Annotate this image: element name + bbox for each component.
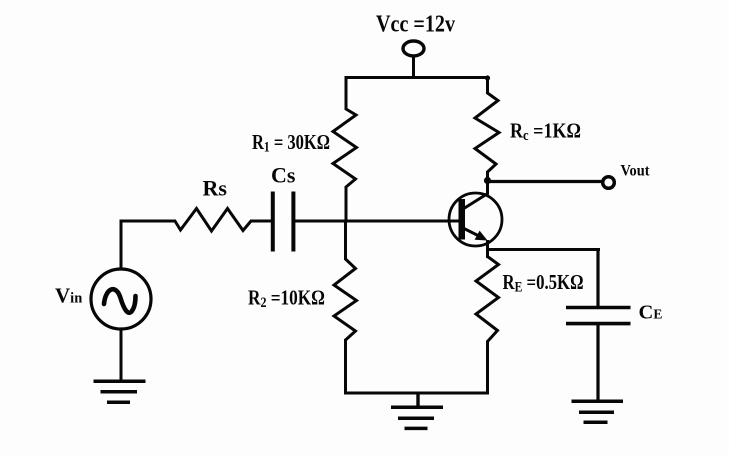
wire base (Cs to transistor through node): [294, 220, 460, 223]
wire R1 bottom: [345, 186, 348, 222]
svg-text:R2 =10KΩ: R2 =10KΩ: [248, 286, 325, 312]
node collector junction: [484, 177, 491, 184]
transistor Q1 emitter arrowhead: [475, 231, 488, 241]
wire Vcc stem: [412, 56, 415, 78]
svg-text:R1 = 30KΩ: R1 = 30KΩ: [252, 130, 330, 156]
wire Rs to Cs: [250, 220, 272, 223]
wire CE top: [596, 248, 599, 308]
transistor Q1 emitter stroke: [463, 228, 482, 238]
ground CE: [572, 401, 624, 422]
capacitor CE: [566, 308, 631, 324]
transistor Q1 base bar: [459, 199, 466, 240]
wire collector up to node: [486, 180, 489, 194]
terminal Vout: [603, 177, 615, 189]
wire emitter node to CE branch: [486, 248, 600, 251]
resistor RE: [476, 257, 499, 342]
terminal Vcc: [403, 41, 424, 56]
source Vin sine wave: [104, 289, 136, 313]
wire Vin top: [121, 221, 176, 270]
wire top rail: [346, 76, 488, 79]
wire CE bottom: [596, 324, 599, 402]
resistor R2: [334, 259, 357, 340]
wire R2 top: [344, 220, 347, 260]
resistor Rc: [475, 93, 499, 172]
wire bottom rail: [344, 392, 489, 395]
transistor Q1 collector stroke: [463, 193, 489, 209]
transistor Q1 circle: [449, 193, 502, 246]
svg-text:Rc =1KΩ: Rc =1KΩ: [510, 119, 581, 145]
wire emitter down: [486, 240, 489, 258]
wire RE bottom: [486, 341, 489, 395]
ground Vin: [94, 381, 146, 402]
wire R1 top: [345, 76, 348, 110]
wire center ground stem: [416, 393, 419, 408]
resistor R1: [333, 109, 357, 187]
resistor Rs: [175, 209, 251, 232]
svg-text:Vcc =12v: Vcc =12v: [376, 12, 455, 38]
node top-right corner: [485, 75, 490, 80]
wire Vin bottom: [120, 328, 123, 382]
wire Rc bottom to collector node: [486, 171, 489, 194]
source Vin circle: [91, 269, 151, 329]
svg-text:Cs: Cs: [271, 163, 296, 188]
wire R2 bottom: [344, 339, 347, 395]
svg-text:Vout: Vout: [621, 163, 651, 180]
svg-text:Rs: Rs: [203, 176, 228, 201]
ground center: [391, 407, 443, 428]
wire Rc top: [486, 76, 489, 94]
wire to Vout: [488, 180, 603, 183]
capacitor Cs: [273, 192, 294, 252]
